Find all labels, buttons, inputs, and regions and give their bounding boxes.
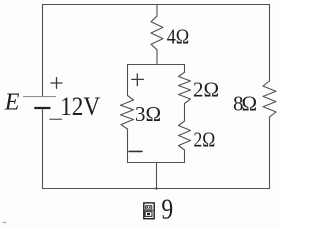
wire inner loop right lower	[184, 150, 186, 163]
battery plus sign	[51, 78, 62, 89]
inner loop minus sign	[129, 150, 142, 152]
resistor R 8ohm zigzag	[263, 81, 276, 117]
svg-text:3Ω: 3Ω	[135, 102, 161, 126]
junction dot bottom rail	[155, 187, 157, 189]
svg-text:4Ω: 4Ω	[167, 25, 190, 49]
resistor R 2ohm upper zigzag	[179, 72, 191, 103]
wire right branch lower	[269, 117, 271, 189]
svg-text:E: E	[4, 89, 20, 115]
wire inner loop right upper	[184, 65, 186, 73]
svg-text:12V: 12V	[60, 92, 100, 121]
inner loop plus sign	[132, 74, 144, 86]
wire middle branch top	[156, 5, 158, 17]
svg-text:9: 9	[161, 195, 173, 226]
wire right branch upper	[269, 5, 271, 82]
battery minus sign	[50, 118, 62, 120]
wire inner loop to bottom rail	[156, 163, 158, 189]
svg-text:2Ω: 2Ω	[193, 77, 219, 101]
wire 4ohm to inner loop	[156, 50, 158, 65]
wire inner loop bottom edge	[128, 162, 185, 164]
caption figure char (tu) drawn	[144, 203, 154, 219]
wire inner loop left upper	[127, 65, 129, 96]
wire left branch lower	[42, 108, 44, 189]
wire inner loop top edge	[128, 64, 185, 66]
wire inner loop right middle	[184, 104, 186, 122]
wire bottom rail	[43, 188, 270, 190]
wire inner loop left lower	[127, 129, 129, 163]
stray scan mark bottom left	[3, 222, 7, 224]
resistor R 4ohm zigzag	[151, 16, 163, 50]
battery E long plate	[24, 96, 56, 98]
wire left branch upper	[42, 5, 44, 97]
resistor R 2ohm lower zigzag	[179, 121, 191, 150]
svg-text:Ω: Ω	[242, 91, 258, 115]
wire top rail	[43, 4, 270, 6]
resistor R 3ohm zigzag	[121, 96, 134, 130]
battery E short plate	[35, 107, 49, 109]
svg-text:2Ω: 2Ω	[194, 128, 216, 152]
